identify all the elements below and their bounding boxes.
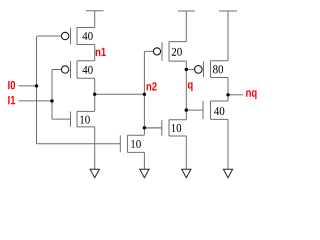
net label nq [246,90,256,99]
junction dot I0/rail [35,84,38,87]
junction dot n2 left [93,93,96,96]
junction dot I1/rail [50,99,53,102]
wire n2 to M3 drain [94,94,96,111]
wire n2 horizontal [95,93,145,95]
wire nq stub to label [228,94,243,96]
wire n2 to M7 gate [144,127,162,129]
junction dot n2 right [143,93,146,96]
value 10 of M3 [80,116,90,124]
junction dot n2/M7 gate [143,126,146,129]
wire nq (M5 drain down to M8 drain) [227,78,229,102]
ground symbol A [90,169,99,177]
junction dot q lower [185,108,188,111]
value 40 of M1 [82,32,92,40]
pmos M4 20 (gate n2) [144,42,186,62]
value 10 of M6 [131,140,141,148]
nmos M7 10 (gate n2) [144,120,186,136]
net label I0 [8,81,15,89]
nmos M6 10 (gate I0) [120,135,144,152]
nmos M8 40 (gate q) [186,101,228,120]
junction dot nq [226,93,229,96]
vdd supply 3 [219,11,237,61]
wire I1 rail [51,70,53,120]
ground symbol B [140,169,149,177]
ground symbol D [223,169,232,177]
vdd supply 2 [178,11,195,42]
junction dot q upper [185,68,188,71]
pmos M1 40 (gate I0) [37,28,95,45]
wire I1 stub [19,100,53,102]
wire I0 stub [19,85,37,87]
ground symbol C [182,169,191,177]
vdd supply 1 [86,11,104,28]
wire node n1 (M1 drain to M2 source) [94,45,96,61]
net label n1 [96,48,106,56]
wire M3 source to ground [94,127,96,169]
wire M2 drain down to n2 [94,78,96,94]
wire M8 source to ground [227,119,229,169]
wire q (M4 drain down) [185,61,187,110]
pmos M5 80 (gate q) [186,61,228,78]
wire q to M7 drain [185,110,187,120]
wire I0 rail (left vertical + bottom horizontal to M6 gate) [37,36,121,144]
wire n2 down to M6 drain junction [143,94,145,135]
nmos M3 10 (gate I1) [52,111,95,127]
pmos M2 40 (gate I1) [52,61,95,78]
value 80 of M5 [213,65,223,73]
wire n2 riser to M4 gate [143,51,145,94]
value 10 of M7 [172,124,182,132]
net label q [188,82,193,91]
value 40 of M8 [214,107,224,115]
net label n2 [147,82,157,90]
wire M6 source to ground [143,152,145,169]
value 40 of M2 [82,66,92,74]
net label I1 [8,96,15,104]
wire M7 source to ground [185,136,187,169]
value 20 of M4 [172,48,182,56]
